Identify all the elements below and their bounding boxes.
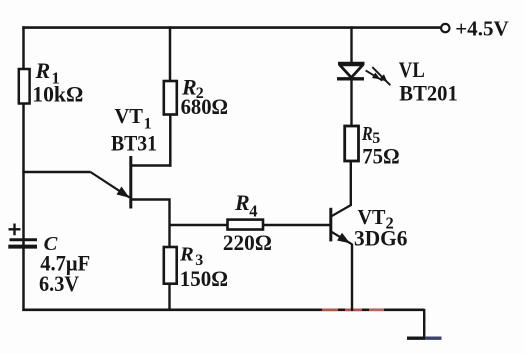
svg-text:R: R [35,58,51,83]
wire R2 bottom to UJT base2 [169,115,172,167]
svg-text:VL: VL [399,57,425,82]
wire bottom rail red artifact [322,308,384,311]
svg-text:680Ω: 680Ω [181,94,229,119]
wire top rail [22,26,441,29]
wire base node to R4 [170,224,228,227]
transistor VT2 labels [354,205,408,251]
svg-text:75Ω: 75Ω [362,144,400,169]
wire R4 to VT2 base [263,224,330,227]
wire VT2 collector diagonal [332,205,352,216]
resistor R3 [164,244,228,291]
wire bottom rail [22,308,424,311]
wire left rail [22,26,25,311]
transistor VT2 base bar [329,208,332,242]
svg-text:220Ω: 220Ω [223,230,272,255]
svg-text:6.3V: 6.3V [39,271,79,296]
svg-text:+4.5V: +4.5V [455,16,509,40]
wire middle rail to R2 [169,26,172,82]
ground [407,309,442,338]
svg-text:3DG6: 3DG6 [354,226,408,251]
wire VT1 base2 stub [131,164,171,166]
LED emission arrows [366,67,391,85]
svg-text:BT31: BT31 [111,131,157,156]
resistor R4 [223,190,272,255]
LED VL labels [399,57,458,105]
wire VT1 base1 stub down through R3 [131,200,170,312]
transistor VT1 (unijunction) base bar [129,156,132,209]
svg-text:VT: VT [115,104,144,128]
wire ground lead blue artifact [423,316,425,330]
svg-text:R: R [179,244,194,266]
svg-text:10kΩ: 10kΩ [32,81,83,106]
wire VT2 emitter diagonal with arrow [332,232,353,245]
transistor VT1 labels [111,104,157,156]
wire VT1 emitter horizontal [22,171,90,174]
svg-text:R: R [234,190,250,215]
resistor R1 [19,58,84,106]
wire VT1 emitter diagonal with arrow [91,172,130,198]
resistor R2 [164,74,228,119]
wire LED to R5 [350,79,352,127]
svg-text:4: 4 [249,202,257,221]
LED VL symbol [337,63,365,78]
svg-text:BT201: BT201 [399,80,458,105]
wire VT2 emitter vertical [351,244,353,311]
svg-text:R: R [361,123,373,145]
svg-text:150Ω: 150Ω [180,266,228,291]
capacitor C plus sign [9,224,21,236]
wire top rail to LED [350,26,352,64]
wire VT2 collector vertical [350,161,352,207]
power terminal circle [441,24,449,32]
resistor R5 [345,123,400,169]
capacitor C [8,233,90,296]
